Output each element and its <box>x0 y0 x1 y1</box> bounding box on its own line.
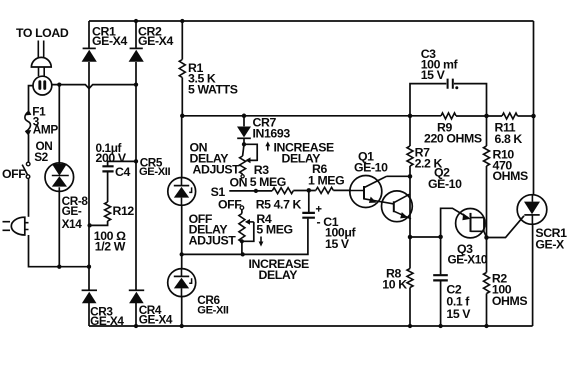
svg-text:5 WATTS: 5 WATTS <box>188 83 238 97</box>
receptacle slot left <box>38 80 41 90</box>
svg-text:R5 4.7 K: R5 4.7 K <box>256 197 302 211</box>
node C2 top <box>438 235 443 240</box>
wire top rail <box>89 20 534 22</box>
wire S2 to AC plug <box>28 178 30 216</box>
node mid rail / right rail <box>531 114 536 119</box>
transistor Q3 outline <box>456 209 485 238</box>
svg-text:1 MEG: 1 MEG <box>308 173 344 187</box>
transistor Q1 internals <box>363 186 365 200</box>
plug AC prongs <box>3 222 11 231</box>
diac CR-8 outline <box>45 163 74 192</box>
polarity dot C3 <box>455 86 458 89</box>
node CR1 column / AC corner <box>87 265 91 269</box>
wire Q3 base <box>441 208 469 237</box>
wire R3 bypass loop <box>244 144 257 160</box>
svg-text:15 V: 15 V <box>421 68 446 82</box>
arrow Q1 emitter <box>369 197 377 203</box>
wire R5 to C1 node <box>293 190 316 192</box>
node CR1 column / R12 return <box>87 223 91 227</box>
resistor R2 <box>486 238 488 273</box>
svg-text:GE-X10: GE-X10 <box>448 253 488 267</box>
svg-text:220 OHMS: 220 OHMS <box>424 132 482 146</box>
wire SCR cathode to bus <box>532 224 534 326</box>
node mid rail / R10 <box>484 114 489 119</box>
svg-text:GE-XII: GE-XII <box>139 166 170 178</box>
wiper arrow R3 <box>250 159 257 161</box>
resistor R9 <box>441 113 456 119</box>
node bus CR6 <box>180 324 184 328</box>
wire emitter to C2 node <box>410 236 441 238</box>
svg-text:GE-X4: GE-X4 <box>139 313 173 327</box>
node bus C2 <box>438 324 442 328</box>
capacitor C4 <box>102 166 113 171</box>
wire CR7 top <box>243 116 245 127</box>
wire SCR gate <box>487 216 525 238</box>
diode CR2 <box>129 50 144 62</box>
wire delay return <box>182 219 308 255</box>
terminal R3 bottom <box>241 175 244 178</box>
wire R4 to delay return <box>241 242 243 254</box>
wire R1 column to CR5 <box>181 116 183 178</box>
node R4 bottom loop <box>240 239 244 243</box>
node R1 column / mid rail <box>180 114 185 119</box>
svg-text:15 V: 15 V <box>446 307 471 321</box>
svg-text:OHMS: OHMS <box>493 169 528 183</box>
svg-text:TO LOAD: TO LOAD <box>16 26 69 40</box>
wire C3 right leg <box>454 84 487 116</box>
plug AC notch <box>25 223 29 230</box>
diode CR7 <box>237 127 251 138</box>
svg-text:OFF: OFF <box>218 197 242 211</box>
wire CR1-CR3 column <box>88 21 90 326</box>
switch S2 lower contact <box>26 175 30 179</box>
svg-text:ADJUST: ADJUST <box>193 163 241 177</box>
wire receptacle to bridge (hop over CR1 line) <box>52 85 136 89</box>
svg-text:S2: S2 <box>34 150 48 164</box>
wire C4 tap <box>108 161 136 165</box>
svg-text:GE-: GE- <box>62 204 82 218</box>
svg-text:1/2 W: 1/2 W <box>95 239 126 253</box>
svg-text:DELAY: DELAY <box>259 268 298 282</box>
wire C4 to R12 <box>107 172 109 202</box>
transistor Q1 outline <box>350 176 382 208</box>
node C1 top <box>307 188 312 193</box>
svg-text:GE-10: GE-10 <box>428 177 462 191</box>
capacitor C2 <box>440 237 442 275</box>
wire C1 to signal node <box>308 190 310 213</box>
transistor Q2 outline <box>382 191 413 222</box>
switch S2 upper contact <box>26 162 30 166</box>
resistor R7 <box>409 116 411 146</box>
terminal S1 OFF <box>240 206 244 210</box>
polarity plus C1 <box>316 206 322 212</box>
node CR7 / R3 loop <box>242 142 246 146</box>
wire CR6 to bus <box>181 297 183 326</box>
potentiometer R3 <box>243 144 244 156</box>
node top rail / CR2 <box>134 19 138 23</box>
lamp CR6 diode <box>174 275 189 277</box>
svg-text:GE-XII: GE-XII <box>197 305 228 317</box>
wire mid rail <box>182 115 441 117</box>
wire R12 return <box>90 221 108 225</box>
resistor R12 <box>105 202 111 221</box>
wire R6 to Q1 base <box>333 189 351 191</box>
svg-text:6.8 K: 6.8 K <box>495 132 523 146</box>
node mid rail / R7 <box>408 114 413 119</box>
svg-text:C4: C4 <box>115 165 130 179</box>
plug AC body <box>11 217 25 235</box>
arrow increase delay up <box>267 145 269 151</box>
node CR5 line / RC return <box>180 252 184 256</box>
arrow increase delay down <box>260 237 262 243</box>
node bus R2 <box>484 324 488 328</box>
svg-text:10 K: 10 K <box>382 277 407 291</box>
wire CR7 to node <box>243 138 245 144</box>
lamp CR5 outline <box>168 178 196 206</box>
wire CR2-CR4 column <box>135 21 137 326</box>
svg-text:R12: R12 <box>113 204 135 218</box>
node bus R8 <box>408 324 412 328</box>
resistor R10 <box>486 116 488 146</box>
wire right rail upper <box>533 21 535 195</box>
wire plug column to AC corner <box>29 235 90 267</box>
receptacle slot right <box>43 80 46 90</box>
svg-text:OHMS: OHMS <box>492 294 527 308</box>
diac CR-8 interior stubs <box>58 163 60 191</box>
capacitor C3 <box>448 79 453 89</box>
svg-text:GE-X4: GE-X4 <box>138 34 173 48</box>
lamp CR6 interior stubs <box>181 269 183 297</box>
svg-text:ADJUST: ADJUST <box>189 234 237 248</box>
transistor Q2 internals <box>393 201 395 212</box>
resistor R8 <box>409 237 411 269</box>
node mid rail / CR7 <box>242 114 247 119</box>
svg-text:GE-X4: GE-X4 <box>92 34 127 48</box>
svg-text:5 MEG: 5 MEG <box>256 223 292 237</box>
node CR2 column / C4 tap <box>134 159 138 163</box>
wire CR8 branch <box>58 85 60 267</box>
svg-text:GE-X: GE-X <box>535 237 565 251</box>
fuse F1 <box>28 104 30 162</box>
svg-text:5 MEG: 5 MEG <box>250 175 286 189</box>
svg-text:OFF: OFF <box>2 167 26 181</box>
diode CR1 <box>82 50 97 62</box>
arrow Q2 emitter <box>400 212 408 218</box>
svg-text:ON: ON <box>230 175 248 189</box>
lamp CR5 interior stubs <box>181 178 183 206</box>
node R4 / return wire <box>241 252 245 256</box>
lamp CR5 diode <box>174 185 189 187</box>
thyristor SCR1 interior stubs <box>531 195 533 224</box>
node bus CR4 <box>134 324 138 328</box>
svg-text:15 V: 15 V <box>325 237 350 251</box>
wire S1 arm to R5 <box>229 190 272 192</box>
node CR2 column / receptacle wire <box>134 82 138 86</box>
capacitor C1 <box>302 213 315 218</box>
diode CR4 <box>129 292 144 304</box>
plug to load prongs <box>38 41 43 58</box>
arrow Q3 emitter(base lead) <box>462 213 470 220</box>
resistor R11 <box>502 113 518 119</box>
node Q1 collector / R7 <box>408 174 413 179</box>
wire Q1 collector <box>387 175 411 177</box>
svg-text:AMP: AMP <box>33 123 59 137</box>
wiper arrow R4 <box>250 221 254 223</box>
svg-text:GE-10: GE-10 <box>354 161 388 175</box>
svg-text:GE-X4: GE-X4 <box>90 314 124 328</box>
thyristor SCR1 outline <box>517 195 547 225</box>
resistor R5 <box>272 188 293 194</box>
wire receptacle to left branch <box>29 86 34 104</box>
wire R4 bypass loop <box>242 222 254 241</box>
wire bottom bus <box>89 325 533 327</box>
switch S2 arm <box>22 165 28 176</box>
node AC corner / CR8 bottom <box>57 265 61 269</box>
transistor Q3 internals <box>470 213 472 232</box>
potentiometer R4 <box>241 210 243 214</box>
node receptacle wire / CR8 branch <box>57 82 61 86</box>
svg-text:200 V: 200 V <box>96 151 127 165</box>
node emitter junction <box>408 235 413 240</box>
svg-text:IN1693: IN1693 <box>253 127 291 141</box>
diode CR3 <box>82 292 97 304</box>
svg-text:X14: X14 <box>62 217 83 231</box>
wire Q collector column <box>409 176 411 237</box>
plug to load pins <box>39 67 45 76</box>
resistor R1 <box>181 21 183 60</box>
diac CR-8 triangles <box>52 164 67 176</box>
lamp CR6 outline <box>168 269 196 297</box>
node top rail / R1 <box>180 19 184 23</box>
plug to load body <box>31 57 51 67</box>
node signal wire <box>254 189 258 193</box>
receptacle S0 outline <box>33 76 52 95</box>
node Q3 / gate wire <box>484 235 489 240</box>
thyristor SCR1 triangle <box>524 202 540 215</box>
resistor R6 <box>316 187 334 193</box>
wire CR5 to CR6 <box>181 205 183 268</box>
wire C3 left leg <box>410 84 446 116</box>
